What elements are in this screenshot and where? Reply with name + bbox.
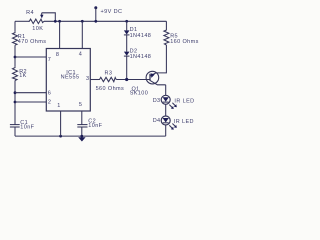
- resistor R3: [99, 77, 117, 81]
- Q1 emitter diagonal with arrow: [150, 73, 156, 76]
- wire bottom rail: [15, 135, 166, 137]
- svg-text:470 Ohms: 470 Ohms: [18, 39, 47, 45]
- junction dot pin8 drop: [58, 20, 61, 23]
- svg-text:+9V DC: +9V DC: [101, 9, 123, 15]
- wire pin 3 to R3: [90, 79, 98, 81]
- resistor R2: [13, 67, 18, 81]
- wire D4 to bottom rail: [165, 125, 167, 136]
- svg-text:1N4148: 1N4148: [130, 54, 152, 60]
- junction dot pin4 drop: [81, 20, 84, 23]
- R4 wiper arrow: [41, 13, 43, 16]
- svg-text:8: 8: [56, 52, 59, 58]
- wire R5 to emitter: [156, 45, 167, 73]
- wire left rail upper: [14, 21, 16, 32]
- svg-text:7: 7: [48, 57, 51, 63]
- svg-text:10nF: 10nF: [88, 123, 102, 129]
- junction dot rail D1: [125, 20, 128, 23]
- svg-text:NE555: NE555: [61, 75, 80, 81]
- R4 wiper wire: [42, 13, 56, 21]
- resistor R4: [28, 19, 44, 24]
- diode D2: [126, 35, 128, 52]
- junction dot pin7: [14, 56, 17, 59]
- D4 light arrows: [169, 125, 172, 128]
- svg-text:1N4148: 1N4148: [130, 33, 152, 39]
- svg-text:D3: D3: [153, 98, 161, 104]
- wire D2 to base node: [126, 56, 128, 79]
- transistor Q1: [146, 71, 159, 84]
- svg-text:IR LED: IR LED: [174, 119, 194, 125]
- diode D1: [126, 21, 128, 30]
- svg-text:10K: 10K: [32, 26, 43, 32]
- D3 light arrows: [169, 105, 172, 108]
- wire pin 2: [15, 101, 46, 103]
- op-amp U1 : IC1 NE555 box: [46, 49, 90, 112]
- LED D4: [161, 116, 170, 125]
- svg-text:4: 4: [79, 52, 82, 58]
- resistor R1: [13, 32, 18, 45]
- wire collector to D3: [165, 85, 167, 95]
- ground: [80, 135, 83, 138]
- svg-text:3: 3: [86, 76, 89, 82]
- wire pin 7: [15, 56, 46, 58]
- wire top rail left: [15, 20, 28, 22]
- wire R3 to base: [116, 79, 150, 81]
- junction dot pin2: [14, 101, 17, 104]
- wire pin 4 drop: [81, 21, 83, 48]
- wire pin 5 to C2: [81, 111, 83, 125]
- Q1 base bar: [149, 74, 151, 81]
- junction dot pin6: [14, 91, 17, 94]
- svg-text:1K: 1K: [19, 73, 27, 79]
- svg-text:D4: D4: [153, 118, 161, 124]
- wire pin 1 to ground rail: [60, 111, 62, 136]
- svg-text:6: 6: [48, 90, 51, 96]
- Q1 collector diagonal: [150, 80, 166, 84]
- capacitor C2: [77, 124, 87, 126]
- wire D3 to D4: [165, 104, 167, 116]
- svg-text:SK100: SK100: [130, 91, 149, 97]
- capacitor C1: [10, 124, 20, 126]
- svg-text:5: 5: [79, 102, 82, 108]
- wire pin 6: [15, 92, 46, 94]
- junction dot pin1/bottom rail: [59, 135, 62, 138]
- svg-text:160 Ohms: 160 Ohms: [170, 39, 199, 45]
- svg-text:R3: R3: [105, 70, 113, 76]
- wire left rail bottom corner: [14, 127, 16, 136]
- svg-text:1: 1: [57, 103, 60, 109]
- svg-text:2: 2: [48, 100, 51, 106]
- svg-text:R4: R4: [26, 10, 34, 16]
- LED D3: [161, 95, 170, 104]
- junction dot base node: [125, 78, 128, 81]
- junction dot wiper/rail: [54, 20, 57, 23]
- svg-text:IR LED: IR LED: [174, 98, 194, 104]
- wire pin 8 drop: [59, 21, 61, 48]
- svg-text:560 Ohms: 560 Ohms: [96, 86, 125, 92]
- resistor R5: [164, 21, 169, 45]
- svg-text:10nF: 10nF: [20, 124, 34, 130]
- node +9V DC: [94, 6, 97, 9]
- wire left rail mid: [14, 45, 16, 67]
- wire top rail right of R4: [44, 20, 166, 22]
- wire left rail lower: [14, 81, 16, 125]
